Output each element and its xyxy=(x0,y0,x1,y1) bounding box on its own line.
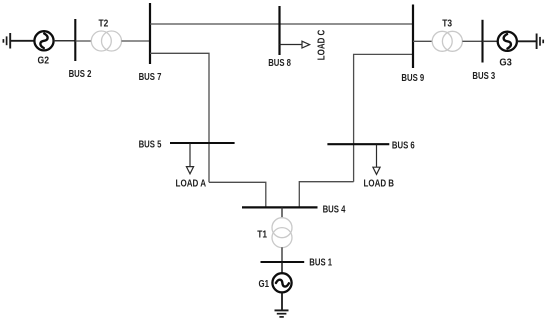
svg-text:BUS 7: BUS 7 xyxy=(139,72,162,83)
wire BUS 5 path to BUS 4 xyxy=(209,182,266,207)
wire G3 to ground xyxy=(517,40,536,42)
svg-text:BUS 8: BUS 8 xyxy=(268,58,291,69)
transformer T2 xyxy=(91,31,121,51)
wire BUS 1 to G1 xyxy=(281,262,283,274)
load arrow LOAD A xyxy=(186,144,193,174)
bus BUS 2 xyxy=(74,19,76,61)
wire T1 to BUS 1 xyxy=(281,247,283,262)
wire T2 to BUS 7 xyxy=(122,40,151,42)
wire BUS 6 path to BUS 4 xyxy=(299,182,353,207)
transformer T3 xyxy=(432,31,462,51)
bus BUS 3 xyxy=(481,20,483,63)
ground (bottom, G1) xyxy=(275,310,289,317)
wire ground to G2 xyxy=(11,40,35,42)
generator G1 xyxy=(272,273,291,292)
bus BUS 1 xyxy=(261,261,305,263)
bus BUS 7 xyxy=(149,3,151,64)
ground (right, G3) xyxy=(537,34,544,50)
svg-text:BUS 9: BUS 9 xyxy=(401,73,424,84)
svg-text:BUS 3: BUS 3 xyxy=(472,71,495,82)
svg-text:BUS 1: BUS 1 xyxy=(309,258,332,269)
ground (left, G2) xyxy=(3,33,10,49)
load arrow LOAD C xyxy=(280,41,310,48)
wire BUS 7 down to BUS 5 path xyxy=(150,53,209,182)
svg-text:T1: T1 xyxy=(257,229,267,240)
wire G1 to ground xyxy=(281,292,283,310)
bus BUS 5 xyxy=(170,142,235,144)
bus BUS 4 xyxy=(242,206,318,208)
svg-text:LOAD C: LOAD C xyxy=(316,30,327,61)
svg-text:G2: G2 xyxy=(38,56,50,67)
svg-text:LOAD B: LOAD B xyxy=(364,178,395,189)
wire top line BUS 7 to BUS 9 xyxy=(150,23,413,25)
svg-text:T2: T2 xyxy=(99,19,109,30)
bus BUS 6 xyxy=(327,143,389,145)
load arrow LOAD B xyxy=(373,145,380,175)
wire BUS 4 to T1 xyxy=(281,207,283,218)
svg-text:G3: G3 xyxy=(499,57,512,68)
svg-text:BUS 2: BUS 2 xyxy=(69,69,92,80)
wire BUS 9 down to BUS 6 path xyxy=(354,54,413,181)
bus BUS 8 xyxy=(278,6,280,55)
svg-text:BUS 5: BUS 5 xyxy=(139,140,162,151)
generator G3 xyxy=(498,32,517,51)
wire BUS 9 to T3 xyxy=(413,40,432,42)
svg-text:BUS 4: BUS 4 xyxy=(323,204,346,215)
wire T3 to BUS 3 xyxy=(462,40,482,42)
transformer T1 xyxy=(272,218,292,248)
wire BUS 2 to T2 xyxy=(75,40,91,42)
svg-text:LOAD A: LOAD A xyxy=(176,179,207,190)
svg-text:G1: G1 xyxy=(259,279,270,290)
wire BUS 3 to G3 xyxy=(483,40,498,42)
svg-text:BUS 6: BUS 6 xyxy=(392,141,415,152)
bus BUS 9 xyxy=(412,5,414,69)
svg-text:T3: T3 xyxy=(442,19,452,30)
generator G2 xyxy=(34,31,53,50)
wire G2 to BUS 2 xyxy=(54,40,76,42)
